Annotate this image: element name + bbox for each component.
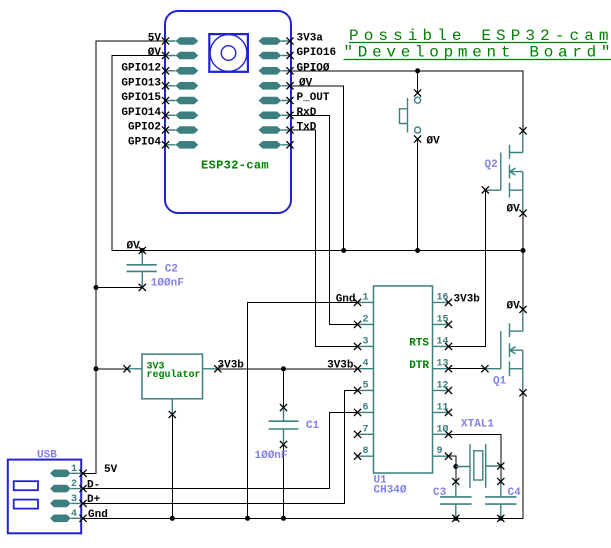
svg-text:3V3b: 3V3b bbox=[218, 359, 245, 371]
svg-text:C1: C1 bbox=[306, 420, 320, 432]
USB reference label bbox=[37, 449, 57, 461]
junction 0V rail / button bbox=[415, 248, 420, 253]
C3 bottom X on Gnd rail bbox=[452, 515, 459, 522]
svg-text:11: 11 bbox=[437, 402, 449, 413]
junction 0V rail / Q2-Q1 vertical bbox=[521, 248, 526, 253]
svg-text:RxD: RxD bbox=[297, 107, 317, 119]
U1 reference label bbox=[374, 475, 407, 497]
Q2 reference label bbox=[485, 159, 498, 171]
regulator text 3V3 bbox=[147, 361, 201, 381]
crystal right node X bbox=[497, 462, 504, 469]
C1 bottom X bbox=[280, 441, 287, 448]
svg-text:5V: 5V bbox=[104, 464, 118, 476]
ESP32 module left pads pins 5V,0V,GPIO12,GPIO13,GPIO15,GPIO14,GPIO2,GPIO4 bbox=[166, 37, 199, 148]
U1 RTS DTR pin function labels bbox=[409, 338, 429, 372]
pushbutton switch S1 bbox=[400, 97, 421, 133]
svg-text:ESP32-cam: ESP32-cam bbox=[201, 159, 269, 173]
regulator U2 3V3 box bbox=[127, 354, 218, 414]
C1 value label 100nF bbox=[255, 450, 288, 462]
junction GPIO0 / button bbox=[415, 68, 420, 73]
Q2 drain X bbox=[519, 127, 526, 134]
title line 2: "Development Board" bbox=[344, 44, 611, 62]
Q2 gate X bbox=[482, 186, 489, 193]
svg-text:Q1: Q1 bbox=[493, 376, 507, 388]
USB pin X marks bbox=[79, 470, 86, 522]
wire U1 pin10 to crystal right node bbox=[449, 434, 501, 481]
Q2 source X bbox=[519, 210, 526, 217]
svg-text:GPIO4: GPIO4 bbox=[128, 136, 161, 148]
junction Gnd rail / C4 bbox=[498, 516, 503, 521]
junction 0V rail / C2 top bbox=[140, 248, 145, 253]
C4 bottom X on Gnd rail bbox=[497, 515, 504, 522]
svg-text:5: 5 bbox=[362, 380, 368, 391]
wire U1 pin9 to crystal left node bbox=[449, 456, 456, 481]
wire 3V3b: regulator output to U1 pin4 bbox=[218, 368, 358, 370]
C3 top X bbox=[452, 478, 459, 485]
wire C1 vertical through 3V3b to Gnd rail bbox=[283, 369, 285, 519]
svg-text:ØV: ØV bbox=[148, 47, 162, 59]
svg-text:RTS: RTS bbox=[409, 338, 429, 350]
svg-text:CH34Ø: CH34Ø bbox=[374, 485, 407, 497]
C4 reference label bbox=[508, 487, 522, 499]
svg-text:3V3b: 3V3b bbox=[454, 293, 481, 305]
regulator ground X bbox=[169, 411, 176, 418]
svg-text:5V: 5V bbox=[148, 33, 162, 45]
Gnd net label at U1 pin1 bbox=[336, 293, 356, 305]
USB pin net labels 5V D- D+ Gnd bbox=[87, 464, 118, 521]
C1 top X bbox=[280, 404, 287, 411]
capacitor C3 bbox=[440, 483, 472, 519]
junction Gnd rail / C3 bbox=[453, 516, 458, 521]
svg-text:DTR: DTR bbox=[409, 360, 429, 372]
svg-text:GPIOØ: GPIOØ bbox=[297, 62, 330, 74]
svg-text:3: 3 bbox=[362, 336, 368, 347]
ESP32 right pin labels bbox=[297, 33, 337, 134]
svg-text:P_OUT: P_OUT bbox=[297, 92, 330, 104]
svg-text:GPIO12: GPIO12 bbox=[121, 62, 161, 74]
U1 right pin stubs 16-9 bbox=[433, 302, 449, 456]
IC U1 CH340 box bbox=[374, 286, 433, 473]
ESP32 right pin connection X marks bbox=[286, 37, 293, 148]
pushbutton top X bbox=[414, 89, 421, 96]
svg-text:2: 2 bbox=[71, 479, 77, 490]
svg-text:4: 4 bbox=[71, 509, 77, 520]
title line 1: Possible ESP32-cam bbox=[349, 27, 611, 45]
svg-text:ØV: ØV bbox=[299, 77, 313, 89]
svg-text:6: 6 bbox=[362, 402, 368, 413]
pushbutton bottom X bbox=[414, 135, 421, 142]
capacitor C1 100nF bbox=[269, 409, 299, 444]
svg-text:GPIO13: GPIO13 bbox=[121, 77, 161, 89]
svg-text:1Ø: 1Ø bbox=[437, 423, 449, 435]
junction Gnd rail / U1 pin1 wire bbox=[245, 516, 250, 521]
svg-text:14: 14 bbox=[437, 336, 449, 347]
svg-text:13: 13 bbox=[437, 359, 449, 370]
svg-text:regulator: regulator bbox=[147, 369, 201, 381]
svg-text:ØV: ØV bbox=[507, 301, 521, 313]
svg-text:1ØØnF: 1ØØnF bbox=[255, 450, 288, 462]
wire D+: U1 pin5 to USB pin3 bbox=[83, 390, 358, 503]
svg-text:C3: C3 bbox=[433, 487, 447, 499]
transistor Q1 bbox=[485, 311, 523, 393]
USB pin numbers 1-4 bbox=[71, 464, 77, 520]
ESP32 left pin labels bbox=[121, 33, 161, 149]
wire button top: GPIO0 line down to switch bbox=[417, 71, 419, 93]
wire Gnd: U1 pin1 to Gnd rail x=247.5 bbox=[248, 302, 358, 518]
U1 left pin numbers 1-8 bbox=[362, 292, 368, 457]
regulator input X bbox=[123, 365, 130, 372]
3V3b net label at regulator output bbox=[218, 359, 245, 371]
svg-text:D-: D- bbox=[87, 479, 100, 491]
junction crystal left node / U1 pin9 / C3 bbox=[453, 464, 458, 469]
connector USB outline bbox=[8, 460, 81, 534]
svg-text:Q2: Q2 bbox=[485, 159, 498, 171]
ESP32 left pin connection X marks bbox=[162, 37, 169, 148]
svg-text:3: 3 bbox=[71, 494, 77, 505]
C3 reference label bbox=[433, 487, 447, 499]
wire DTR: U1 pin13 to Q1 gate bbox=[449, 368, 485, 370]
regulator output X bbox=[214, 365, 221, 372]
svg-text:GPIO16: GPIO16 bbox=[297, 47, 337, 59]
Q1 drain X bbox=[519, 306, 526, 313]
wire 5V net: ESP32 pin1 to USB pin1, rail x=96 bbox=[83, 41, 166, 473]
U1 right pin X marks bbox=[445, 299, 452, 460]
svg-text:1: 1 bbox=[71, 464, 77, 475]
wire Q1 source to Gnd rail and Gnd rail to USB pin4 bbox=[83, 393, 523, 519]
svg-text:Gnd: Gnd bbox=[88, 509, 108, 521]
0V net label at C2 bbox=[127, 240, 141, 252]
wire regulator input from 5V rail bbox=[96, 368, 127, 370]
wire Q2 source to 0V rail to Q1 drain bbox=[522, 213, 524, 309]
wire C2 bottom to 5V rail bbox=[96, 287, 142, 289]
svg-text:3V3a: 3V3a bbox=[297, 33, 324, 45]
USB pads pins 1-4 bbox=[50, 470, 83, 523]
wire GPIO0: ESP32 right pin3 to Q2 drain bbox=[290, 71, 523, 131]
svg-text:3V3b: 3V3b bbox=[327, 359, 354, 371]
svg-text:2: 2 bbox=[362, 314, 368, 325]
XTAL1 reference label bbox=[461, 419, 494, 431]
Q1 gate X bbox=[481, 365, 488, 372]
C2 top X bbox=[139, 247, 146, 254]
svg-text:C4: C4 bbox=[508, 487, 522, 499]
wire 0V: ESP32 right pin4 down to 0V rail bbox=[290, 86, 344, 251]
C1 reference label bbox=[306, 420, 320, 432]
crystal XTAL1 bbox=[456, 444, 501, 488]
wire D-: U1 pin6 to USB pin2 bbox=[83, 412, 358, 488]
svg-text:7: 7 bbox=[362, 424, 368, 435]
junction 3V3b / C1 top bbox=[281, 366, 286, 371]
svg-text:D+: D+ bbox=[87, 494, 101, 506]
camera lens symbol bbox=[209, 34, 248, 72]
svg-text:C2: C2 bbox=[165, 264, 178, 276]
svg-text:1ØØnF: 1ØØnF bbox=[151, 278, 184, 290]
svg-text:ØV: ØV bbox=[427, 136, 441, 148]
svg-text:12: 12 bbox=[437, 380, 449, 391]
Q2 source 0V net label bbox=[507, 204, 521, 216]
pushbutton 0V net label bbox=[427, 136, 441, 148]
svg-text:8: 8 bbox=[362, 446, 368, 457]
svg-text:15: 15 bbox=[437, 314, 449, 325]
junction Gnd rail / regulator ground bbox=[170, 516, 175, 521]
capacitor C4 bbox=[485, 483, 517, 519]
wire 0V net rail: ESP32 left pin2 down x=112 and rail y=250.5 bbox=[112, 56, 523, 251]
wire regulator ground down to Gnd rail bbox=[171, 415, 173, 519]
svg-text:USB: USB bbox=[37, 449, 57, 461]
C4 top X bbox=[497, 478, 504, 485]
U1 right pin numbers 16-9 bbox=[437, 292, 449, 457]
svg-text:GPIO15: GPIO15 bbox=[121, 92, 161, 104]
svg-text:9: 9 bbox=[437, 446, 443, 457]
3V3b net label at U1 pin4 bbox=[327, 359, 354, 371]
Q1 source X bbox=[519, 389, 526, 396]
svg-text:XTAL1: XTAL1 bbox=[461, 419, 494, 431]
3V3b net label at U1 pin16 bbox=[454, 293, 481, 305]
svg-text:TxD: TxD bbox=[297, 122, 317, 134]
svg-text:ØV: ØV bbox=[127, 240, 141, 252]
wire TxD: ESP32 right pin7 to U1 pin3 bbox=[290, 130, 358, 346]
svg-text:ØV: ØV bbox=[507, 204, 521, 216]
ESP32-cam module name label bbox=[201, 159, 269, 173]
svg-text:GPIO2: GPIO2 bbox=[128, 122, 161, 134]
U1 left pin X marks bbox=[354, 299, 361, 460]
svg-text:4: 4 bbox=[362, 359, 368, 370]
C2 reference label bbox=[165, 264, 178, 276]
svg-text:1: 1 bbox=[362, 292, 368, 303]
Q1 drain 0V net label bbox=[507, 301, 521, 313]
C2 bottom X bbox=[139, 284, 146, 291]
wire RTS: U1 pin14 to Q2 gate bbox=[449, 190, 486, 347]
junction Gnd rail / C1 bottom bbox=[281, 516, 286, 521]
module ESP32-cam outline bbox=[165, 11, 291, 213]
C2 value label 100nF bbox=[151, 278, 184, 290]
junction 5V rail / C2 bottom bbox=[94, 285, 99, 290]
ESP32 module right pads pins 3V3a,GPIO16,GPIO0,0V,P_OUT,RxD,TxD,nc bbox=[259, 37, 291, 148]
wire RxD: ESP32 right pin6 to U1 pin2 bbox=[290, 115, 358, 324]
junction 0V rail / ESP32 0V pin bbox=[341, 248, 346, 253]
svg-text:GPIO14: GPIO14 bbox=[121, 107, 161, 119]
svg-text:"Development Board": "Development Board" bbox=[344, 44, 611, 62]
wire button bottom to 0V rail bbox=[417, 139, 419, 251]
junction 5V rail / regulator input bbox=[94, 366, 99, 371]
transistor Q2 bbox=[485, 132, 523, 213]
svg-text:Gnd: Gnd bbox=[336, 293, 356, 305]
svg-text:16: 16 bbox=[437, 292, 449, 303]
Q1 reference label bbox=[493, 376, 507, 388]
U1 left pin stubs 1-8 bbox=[358, 302, 374, 456]
capacitor C2 100nF bbox=[127, 252, 157, 286]
